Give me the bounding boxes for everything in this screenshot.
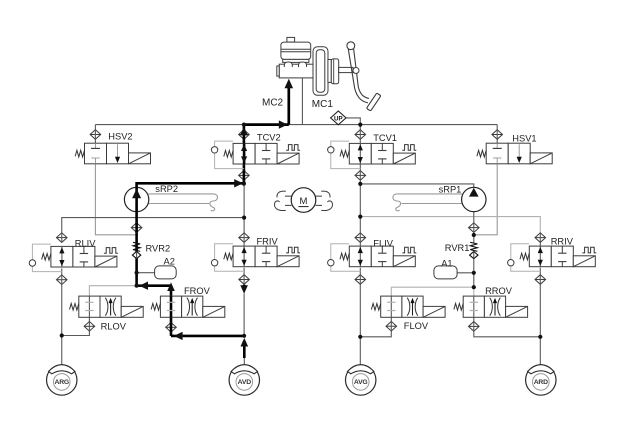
svg-text:RVR2: RVR2 — [146, 243, 171, 253]
RROV solenoid — [506, 306, 528, 317]
accumulator A1 — [434, 266, 457, 279]
wire FLOV bottom link — [360, 317, 391, 337]
TCV1 pilot circle — [328, 147, 334, 153]
RRIV flow arrows in left box — [539, 246, 541, 267]
wire RRIV bottom column to ARD — [539, 268, 541, 365]
RLOV spring — [70, 304, 79, 311]
TCV2 solenoid — [277, 153, 299, 164]
RLOV solenoid — [121, 306, 143, 317]
wire A2 link — [137, 272, 155, 274]
union RLIV top — [56, 233, 67, 243]
union RROV bottom — [469, 322, 480, 332]
FLIV flow arrows in left box — [359, 246, 361, 267]
RLOV body left box (closed position) — [79, 296, 100, 317]
wire rear crossover right (gray) — [360, 217, 540, 233]
master cylinder reservoir cap — [287, 37, 295, 42]
svg-text:MC2: MC2 — [262, 98, 284, 109]
brake pedal pad — [366, 93, 380, 111]
svg-text:HSV2: HSV2 — [108, 132, 132, 142]
FLIV pilot line — [331, 244, 350, 260]
TCV1 pilot line — [331, 141, 350, 147]
bold flow FROV riser — [170, 289, 173, 336]
union HSV2 — [90, 130, 101, 140]
master cylinder reservoir base — [283, 59, 309, 62]
svg-text:MC1: MC1 — [312, 99, 334, 110]
svg-text:FRIV: FRIV — [257, 236, 279, 246]
svg-text:sRP2: sRP2 — [155, 184, 178, 194]
wire main bus MC to valves — [95, 124, 497, 126]
wheel ARG hub circle — [53, 374, 70, 391]
RLOV body right box (throttle position) — [100, 296, 121, 317]
wire HSV2 bottom drop to pump suction — [95, 164, 136, 235]
FRIV PWM symbol — [286, 247, 300, 253]
pump sRP2 — [124, 187, 148, 211]
FLIV pilot circle — [328, 260, 334, 266]
FLOV spring — [371, 304, 380, 311]
node pump2 outlet — [242, 182, 246, 186]
pump sRP1 drive tube — [393, 194, 462, 211]
wire TCV1 top port — [359, 125, 361, 144]
node outlet return left — [135, 284, 139, 288]
regulator RVR2 — [133, 242, 140, 251]
RRIV body left box (open position) — [529, 246, 551, 267]
RLIV PWM symbol — [104, 248, 118, 254]
wire FLIV bottom column to AVG — [359, 268, 361, 365]
node ARD branch — [538, 335, 542, 339]
FLIV body right box (closed position) — [371, 246, 393, 267]
svg-text:ARD: ARD — [534, 379, 548, 386]
union FRIV bottom — [239, 275, 250, 285]
svg-text:ARG: ARG — [54, 379, 69, 386]
TCV1 body right box (closed position) — [371, 143, 393, 164]
brake pedal arm — [348, 49, 368, 103]
union TCV1 bottom — [355, 171, 366, 181]
FLIV body left box (open position) — [349, 246, 371, 267]
node bus-TCV2 — [242, 123, 246, 127]
wire UP sensor bypass — [346, 118, 360, 125]
wire RROV bottom link — [474, 317, 541, 337]
TCV2 flow arrows in left box — [243, 143, 246, 164]
union FLOV bottom — [386, 321, 397, 331]
wheel AVG hub circle — [352, 374, 369, 391]
svg-text:A2: A2 — [164, 256, 175, 266]
pedal pivot — [353, 68, 359, 74]
TCV2 pilot line — [215, 141, 234, 147]
HSV2 solenoid — [129, 153, 151, 164]
node bus-TCV1 — [358, 123, 362, 127]
pump sRP2 drive tube — [148, 194, 217, 211]
booster pushrod — [339, 67, 353, 72]
bold flow MC2 supply — [287, 87, 290, 125]
wire RROV top link — [473, 287, 475, 296]
union sRP1 inlet — [469, 223, 480, 233]
union TCV2 bottom — [239, 171, 250, 181]
svg-text:A1: A1 — [441, 258, 452, 268]
FLIV solenoid — [393, 256, 415, 267]
HSV1 body left box (closed position) — [486, 143, 508, 164]
brake booster shell — [313, 47, 328, 96]
union FLIV top — [355, 233, 366, 243]
TCV1 PWM symbol — [402, 145, 416, 151]
master cylinder left end cap — [277, 66, 279, 76]
pressure sensor UP — [331, 111, 346, 125]
wire RLIV lower column to ARG — [61, 268, 63, 364]
wire sRP1 outlet to TCV1 junction — [360, 184, 474, 188]
union HSV1 — [492, 130, 503, 140]
RRIV pilot line — [511, 244, 530, 260]
RLIV flow arrows in left box — [61, 246, 63, 267]
FLOV solenoid — [423, 306, 445, 317]
wheel AVD outer circle — [229, 365, 259, 395]
TCV1 flow arrows in left box — [359, 143, 361, 164]
RRIV solenoid — [573, 256, 595, 267]
FLOV body left box (closed position) — [381, 296, 402, 317]
FRIV flow arrows in left box — [243, 246, 245, 267]
wire MC1 drop line — [301, 78, 303, 124]
TCV2 PWM symbol — [286, 145, 300, 151]
wire RLOV bottom link — [62, 317, 90, 335]
wire sRP1 lower column — [473, 212, 475, 243]
svg-text:RRIV: RRIV — [551, 237, 574, 247]
svg-text:UP: UP — [334, 116, 343, 123]
RLIV pilot circle — [29, 260, 35, 266]
node AVD branch — [242, 334, 246, 338]
FRIV body right box (closed position) — [255, 246, 277, 267]
TCV1 spring — [340, 151, 349, 158]
wheel ARG outer circle — [47, 365, 77, 395]
HSV1 solenoid — [530, 153, 552, 164]
wire rear crossover left (dark) — [62, 218, 244, 233]
wheel ARD hub circle — [533, 374, 550, 391]
svg-text:FLIV: FLIV — [373, 238, 393, 248]
node pump1 outlet — [358, 182, 362, 186]
wire HSV1 bottom drop to pump suction — [474, 164, 497, 235]
RLIV spring — [42, 254, 51, 261]
union FROV bottom — [166, 323, 177, 333]
bold flow TCV2 column — [243, 125, 246, 184]
wheel AVG caliper — [348, 365, 374, 374]
RRIV body right box (closed position) — [551, 246, 573, 267]
union RLOV bottom — [84, 322, 95, 332]
brake pedal top bushing — [347, 42, 355, 50]
FROV body right box (throttle position) — [182, 296, 203, 317]
TCV2 spring — [224, 151, 233, 158]
svg-text:RLOV: RLOV — [101, 321, 127, 331]
HSV1 body right box (open position) — [508, 143, 530, 164]
booster flange — [328, 60, 331, 83]
svg-text:AVD: AVD — [238, 379, 252, 386]
HSV2 body left box (closed position) — [85, 143, 107, 164]
HSV1 spring — [477, 150, 486, 157]
RROV spring — [454, 304, 463, 311]
wire AVD column middle — [243, 294, 245, 336]
RROV body right box (throttle position) — [484, 296, 505, 317]
wire RVR1 to junctions column — [473, 259, 475, 288]
union FRIV top — [239, 233, 250, 243]
wire A1 link — [457, 272, 474, 274]
bold flow wheel return run — [171, 335, 244, 338]
wheel AVG outer circle — [346, 365, 376, 395]
svg-text:AVG: AVG — [354, 379, 368, 386]
FROV spring — [151, 304, 160, 311]
wire RLOV top link — [89, 286, 136, 296]
wheel ARD caliper — [528, 365, 554, 374]
union TCV1 top — [355, 130, 366, 140]
node ARG branch — [60, 333, 64, 337]
FRIV body left box (open position) — [233, 246, 255, 267]
RLIV pilot line — [32, 244, 51, 260]
TCV1 body left box (open position) — [349, 143, 371, 164]
union RRIV top — [535, 233, 546, 243]
wire FLIV column — [359, 184, 361, 246]
wire RRIV column — [539, 233, 541, 247]
regulator RVR1 — [470, 242, 477, 251]
svg-text:RLIV: RLIV — [75, 239, 96, 249]
FRIV pilot circle — [211, 260, 217, 266]
union FLIV bottom — [355, 275, 366, 285]
booster ring — [331, 59, 338, 84]
svg-text:RVR1: RVR1 — [445, 243, 470, 253]
union sRP2 inlet — [131, 223, 142, 233]
RRIV pilot circle — [508, 260, 514, 266]
bold flow outlet return run — [137, 284, 171, 287]
node pump1 suction — [472, 233, 476, 237]
svg-text:FLOV: FLOV — [404, 321, 429, 331]
RLIV body left box (open position) — [51, 246, 73, 267]
FRIV spring — [224, 253, 233, 260]
svg-text:M: M — [300, 196, 308, 207]
bold flow top run to MC2 — [244, 123, 289, 126]
wheel ARD outer circle — [526, 365, 556, 395]
master cylinder body MC1/MC2 — [279, 64, 313, 78]
TCV2 pilot circle — [211, 147, 217, 153]
wire HSV1 top port — [496, 125, 498, 144]
wire TCV1 bottom port to junction — [359, 164, 361, 184]
node crossover left — [242, 216, 246, 220]
FRIV pilot line — [215, 244, 234, 260]
RRIV spring — [520, 253, 529, 260]
bold flow pump outlet run — [137, 183, 244, 285]
RLIV solenoid — [95, 256, 117, 267]
node crossover right — [358, 215, 362, 219]
master cylinder reservoir — [281, 42, 311, 59]
wire FRIV bottom port — [243, 268, 245, 285]
svg-text:TCV2: TCV2 — [257, 133, 281, 143]
TCV2 body left box (open position) — [233, 143, 255, 164]
wire AVD wheel stub — [243, 358, 245, 365]
node A2 branch — [135, 271, 139, 275]
svg-text:TCV1: TCV1 — [373, 133, 397, 143]
FROV solenoid — [203, 306, 225, 317]
FLOV body right box (throttle position) — [402, 296, 423, 317]
FROV body left box (closed position) — [160, 296, 181, 317]
bold flow FRIV outlet arrow — [243, 285, 246, 287]
FRIV solenoid — [277, 256, 299, 267]
motor M couplings — [274, 191, 291, 210]
wire FRIV top column — [243, 184, 245, 246]
RLIV body right box (closed position) — [73, 246, 95, 267]
union RLIV bottom — [56, 275, 67, 285]
bold flow AVD wheel branch — [243, 344, 246, 358]
wire HSV2 top port — [94, 125, 96, 144]
accumulator A2 — [155, 266, 177, 279]
HSV2 body right box (open position) — [107, 143, 129, 164]
pump sRP1 — [462, 187, 486, 211]
svg-text:FROV: FROV — [184, 286, 211, 296]
TCV1 solenoid — [393, 153, 415, 164]
svg-text:RROV: RROV — [485, 286, 513, 296]
HSV2 spring — [75, 150, 84, 157]
node AVG branch — [358, 335, 362, 339]
RROV body left box (closed position) — [463, 296, 484, 317]
wheel AVD hub circle — [236, 374, 253, 391]
wheel ARG caliper — [49, 365, 75, 374]
wire FLOV top link — [391, 287, 474, 296]
motor M — [291, 188, 316, 213]
RRIV PWM symbol — [582, 247, 596, 253]
wheel AVD caliper — [231, 365, 257, 374]
union RRIV bottom — [535, 275, 546, 285]
node outlet return right — [472, 285, 476, 289]
FLIV PWM symbol — [402, 247, 416, 253]
node A1 branch — [472, 271, 476, 275]
svg-text:sRP1: sRP1 — [439, 185, 462, 195]
svg-text:HSV1: HSV1 — [512, 134, 536, 144]
FLIV spring — [340, 253, 349, 260]
union TCV2 top — [239, 130, 250, 140]
master cylinder ports — [284, 62, 292, 67]
TCV2 body right box (closed position) — [255, 143, 277, 164]
